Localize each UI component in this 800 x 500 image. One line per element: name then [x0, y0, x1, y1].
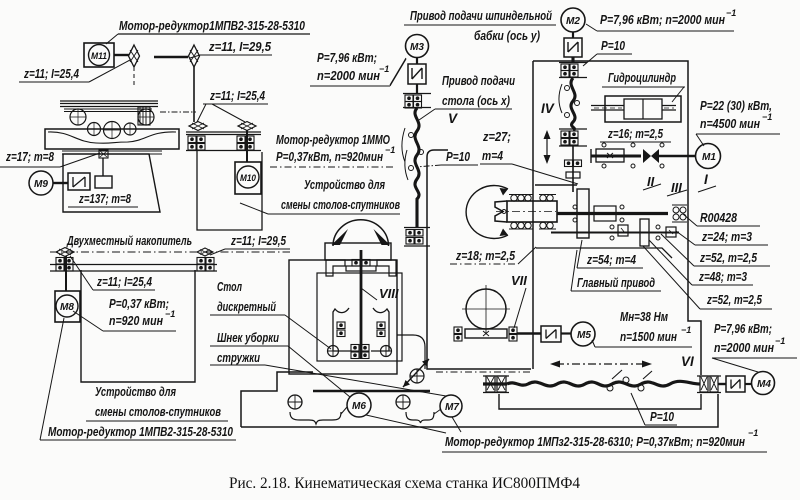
wire M3 to coupling [416, 57, 418, 64]
table spindle shaft [360, 250, 363, 359]
shaft I left end cap [590, 149, 592, 163]
svg-text:М3: М3 [410, 42, 424, 53]
drive circle left [328, 346, 339, 357]
C-bracket left [333, 308, 351, 351]
svg-text:z=11, I=29,5: z=11, I=29,5 [208, 39, 272, 54]
svg-text:P=0,37кВт, n=920мин: P=0,37кВт, n=920мин [276, 149, 383, 164]
label z=11 I=25,4 (M8) [70, 256, 155, 290]
svg-text:−1: −1 [748, 428, 758, 438]
svg-text:М11: М11 [91, 51, 107, 62]
gear wheel B [138, 109, 154, 125]
svg-text:n=2000 мин: n=2000 мин [317, 68, 380, 83]
svg-text:z=24; m=3: z=24; m=3 [701, 229, 752, 244]
C-bracket right [371, 308, 389, 351]
svg-text:−1: −1 [726, 8, 736, 18]
spindle shaft III [557, 212, 668, 215]
gear sleeve on shaft I [596, 149, 624, 162]
accumulator rail [50, 265, 217, 272]
exchange device box (left) [81, 270, 195, 382]
svg-text:Мотор-редуктор 1МПз2-315-28-63: Мотор-редуктор 1МПз2-315-28-6310; P=0,37… [445, 434, 745, 449]
svg-text:z=18; m=2,5: z=18; m=2,5 [455, 248, 515, 263]
bevel wheel (rail right end) [197, 248, 213, 256]
drive circle right [381, 346, 392, 357]
lower shaft [551, 232, 679, 234]
screw VI left bearing [483, 376, 509, 393]
motor M7 [440, 395, 462, 417]
svg-text:z=48; m=3: z=48; m=3 [698, 269, 747, 284]
label z=16 m=2,5 [600, 126, 671, 142]
label Мотор-редуктор 1МПВ2-315-28-5310 (bottom-left) [40, 424, 236, 440]
svg-text:n=2000 мин: n=2000 мин [714, 340, 774, 355]
leader to смены label [240, 203, 268, 214]
svg-text:I: I [704, 172, 708, 187]
screw IV bottom bearing [559, 129, 587, 146]
svg-text:смены столов-спутников: смены столов-спутников [281, 197, 400, 212]
svg-text:P=7,96 кВт;: P=7,96 кВт; [714, 321, 772, 336]
bearing cluster right [672, 205, 687, 222]
gearbox left edge [532, 61, 534, 369]
svg-text:z=11; I=25,4: z=11; I=25,4 [23, 66, 79, 81]
svg-text:−1: −1 [385, 145, 395, 155]
svg-text:n=920 мин: n=920 мин [109, 313, 163, 328]
bearing dots shaft I [602, 143, 664, 168]
svg-text:дискретный: дискретный [217, 299, 276, 314]
rotation arc arrow [466, 186, 508, 239]
machine bed bottom [241, 394, 718, 427]
wire shaft M11 to gear [114, 54, 129, 56]
motor M9 [29, 171, 53, 195]
svg-text:IV: IV [541, 101, 555, 116]
svg-text:Двухместный накопитель: Двухместный накопитель [66, 233, 192, 248]
spindle body [495, 201, 557, 222]
motor M8 [55, 291, 80, 322]
label III [667, 180, 687, 196]
label z=17 m=8 [0, 149, 100, 167]
svg-text:R00428: R00428 [700, 210, 738, 225]
svg-text:Гидроцилиндр: Гидроцилиндр [608, 70, 676, 85]
label Мотор-редуктор 1МПз2-315-28-6310 [442, 428, 767, 452]
transfer dash-dot line (upper) [160, 111, 196, 113]
label n=4500 мин [696, 112, 780, 146]
pinion (hatched) [138, 107, 150, 125]
svg-text:М2: М2 [566, 16, 580, 27]
station box outline [197, 151, 262, 230]
safety coupling M3 [408, 64, 426, 84]
label Привод подачи шпиндельной бабки (ось y) [404, 8, 556, 43]
svg-text:Мотор-редуктор 1МПВ2-315-28-53: Мотор-редуктор 1МПВ2-315-28-5310 [48, 424, 234, 439]
label Главный привод [571, 250, 661, 291]
leader M8 to bottom motor label [40, 318, 64, 440]
table outer box [289, 260, 397, 374]
pallet station: top rail plate [60, 101, 158, 112]
safety coupling M2 [564, 38, 582, 57]
svg-text:Устройство для: Устройство для [95, 384, 176, 399]
svg-text:Главный привод: Главный привод [577, 275, 655, 290]
svg-text:М4: М4 [757, 379, 771, 390]
label смены столов-спутников (right) [268, 197, 400, 214]
svg-text:VII: VII [511, 273, 527, 288]
svg-text:P=10: P=10 [650, 409, 675, 424]
motor M3 [390, 35, 429, 86]
table inner box [317, 273, 402, 361]
worm mark box [99, 150, 108, 158]
wire coupling to M5 [561, 332, 571, 334]
label P=7,96 кВт n=2000 мин (M2) [586, 8, 736, 31]
gear hub on shaft III [594, 206, 616, 221]
station rail [186, 132, 261, 151]
tall gear on lower shaft [640, 219, 649, 246]
feed arrow vertical [544, 130, 551, 164]
gear wheel C [88, 123, 101, 136]
svg-text:z=11; I=25,4: z=11; I=25,4 [96, 274, 152, 289]
machine body block [45, 129, 179, 149]
svg-text:М1: М1 [702, 152, 716, 163]
body lower rail [62, 151, 162, 154]
claw bracket right [377, 260, 396, 276]
center bearing stack [351, 345, 369, 359]
svg-text:z=52, m=2,5: z=52, m=2,5 [699, 250, 757, 265]
svg-text:смены столов-спутников: смены столов-спутников [95, 404, 221, 419]
screw V bottom bearing [404, 228, 430, 247]
svg-text:Стол: Стол [217, 279, 242, 294]
svg-text:Привод подачи шпиндельной: Привод подачи шпиндельной [410, 8, 552, 23]
bearing block (right end) [197, 258, 214, 272]
top bearing pair [352, 260, 370, 267]
brace left conveyor [290, 407, 347, 424]
svg-text:Привод подачи: Привод подачи [442, 73, 515, 88]
svg-text:М10: М10 [240, 173, 257, 184]
label II [643, 174, 661, 190]
svg-text:Устройство для: Устройство для [304, 177, 385, 192]
main gearbox outline [533, 61, 701, 375]
bed step outline [241, 372, 313, 427]
label n=920 мин [73, 309, 176, 331]
svg-text:n=1500 мин: n=1500 мин [620, 329, 677, 344]
svg-text:n=4500 мин: n=4500 мин [700, 116, 760, 131]
svg-text:P=22 (30) кВт,: P=22 (30) кВт, [700, 98, 772, 113]
gearbox bottom edge [536, 248, 672, 258]
label z=48 m=3 [649, 240, 753, 285]
spindle bearings top [509, 195, 556, 202]
wire M2 to coupling [572, 32, 574, 38]
coupling И (M5) [541, 326, 561, 342]
wire M9 shaft [53, 182, 68, 184]
label P=10 (screw IV) [583, 38, 632, 66]
svg-text:М5: М5 [577, 330, 591, 341]
svg-text:z=52, m=2,5: z=52, m=2,5 [706, 292, 762, 307]
label VIII [361, 286, 399, 301]
worm box [465, 329, 507, 338]
hydrocylinder [591, 96, 681, 122]
bearing block right [237, 136, 254, 150]
label Стол дискретный [210, 279, 331, 349]
label z=11 I=29,5 (accumulator rail) [210, 233, 290, 255]
gear wheel E [124, 123, 136, 135]
label z=52 m=2,5 (second) [643, 246, 772, 309]
svg-text:Мотор-редуктор 1ММО: Мотор-редуктор 1ММО [276, 132, 390, 147]
svg-text:−1: −1 [681, 325, 691, 335]
wire right gear down to station rail [193, 67, 195, 122]
wire dashed below gear [133, 67, 135, 88]
svg-text:V: V [448, 111, 458, 126]
label Привод подачи стола (ось x) [419, 73, 515, 120]
label R00428 [683, 210, 760, 226]
shaft I [591, 155, 641, 158]
svg-text:z=16; m=2,5: z=16; m=2,5 [607, 126, 663, 141]
svg-text:P=0,37 кВт;: P=0,37 кВт; [109, 296, 169, 311]
wire worm box down [102, 158, 104, 176]
motor M1 [696, 144, 721, 169]
gear wheel A [70, 109, 86, 125]
wire worm to coupling [517, 332, 541, 335]
wire gear to M10 [246, 130, 248, 162]
label Мотор-редуктор 1МПВ2-315-28-5310 (top) [106, 18, 310, 44]
label Гидроцилиндр [602, 70, 685, 102]
label z=18 m=2,5 [450, 247, 536, 264]
lower block (trapezoid) [63, 154, 160, 212]
bearing block left [188, 136, 205, 150]
spindle bearings bottom [509, 222, 556, 229]
leader bottom label to M6 [366, 415, 446, 433]
label z=11 I=25,4 (M11) [19, 60, 130, 82]
globoid worm gear symbol (right) [189, 45, 200, 67]
svg-text:Шнек уборки: Шнек уборки [217, 330, 279, 345]
svg-text:бабки (ось у): бабки (ось у) [474, 28, 540, 43]
svg-text:z=27;: z=27; [482, 129, 511, 144]
globoid worm gear symbol (left) [129, 45, 140, 67]
label VII [511, 273, 527, 328]
svg-text:P=7,96 кВт;: P=7,96 кВт; [317, 50, 377, 65]
svg-text:−1: −1 [379, 64, 389, 74]
label I [698, 172, 716, 192]
svg-text:М6: М6 [352, 401, 366, 412]
pump circle middle [396, 395, 410, 409]
tall gear z=54 [577, 189, 589, 238]
label P=7,96 кВт n=2000 мин (M3) [310, 50, 406, 86]
svg-text:−1: −1 [762, 112, 772, 122]
label z=54 m=4 [577, 240, 643, 268]
svg-text:P=7,96 кВт; n=2000 мин: P=7,96 кВт; n=2000 мин [600, 12, 725, 27]
ball screw VI [483, 370, 700, 391]
screw VI right bearing [697, 376, 721, 393]
gear box small [95, 176, 112, 188]
motor M10 [235, 162, 261, 194]
wire coupling to bearing [416, 84, 418, 93]
bevel wheel (M8) [56, 248, 74, 257]
ball screw IV [559, 57, 580, 130]
svg-text:Рис. 2.18. Кинематическая схем: Рис. 2.18. Кинематическая схема станка И… [229, 475, 580, 492]
svg-text:VI: VI [681, 354, 694, 369]
label z=24 m=3 [676, 229, 768, 245]
overload clutch (bevel pair) [643, 149, 659, 163]
svg-text:z=11; I=25,4: z=11; I=25,4 [209, 88, 265, 103]
top plate [346, 266, 376, 271]
label P=0,37кВт n=920мин [270, 145, 395, 167]
svg-text:P=10: P=10 [446, 149, 471, 164]
svg-text:стружки: стружки [217, 350, 260, 365]
label смены столов-спутников (left) [86, 404, 228, 421]
wire M8 shaft [65, 256, 67, 291]
wire coupling to M4 [745, 383, 752, 385]
svg-text:−1: −1 [165, 309, 175, 319]
base thick line under table [313, 390, 430, 393]
label стружки [210, 350, 446, 396]
vertical shaft from screw IV [572, 146, 574, 192]
svg-text:стола (ось х): стола (ось х) [442, 93, 510, 108]
pump circle left [288, 395, 302, 409]
coupling И (M9) [68, 173, 90, 190]
clutch box B [666, 227, 676, 237]
leader bottom label to M7 [452, 417, 461, 432]
svg-text:z=54; m=4: z=54; m=4 [586, 252, 636, 267]
dash-dot line right of table [436, 371, 530, 373]
motor M11 [84, 43, 114, 67]
wire table box to spindle head [397, 335, 425, 369]
motor M4 [752, 372, 775, 395]
motor M6 [347, 393, 371, 417]
svg-text:Мн=38 Нм: Мн=38 Нм [620, 309, 668, 324]
bearing ticks lower shaft [610, 225, 660, 240]
svg-text:P=10: P=10 [601, 38, 626, 53]
label m=4 [480, 148, 578, 184]
svg-text:Мотор-редуктор1МПВ2-315-28-531: Мотор-редуктор1МПВ2-315-28-5310 [119, 18, 306, 33]
clutch box A [618, 225, 628, 236]
spindle head box VII [427, 150, 531, 369]
svg-text:М7: М7 [445, 402, 459, 413]
svg-text:М9: М9 [34, 179, 48, 190]
svg-text:z=17; m=8: z=17; m=8 [5, 149, 54, 164]
screw VI housing [499, 394, 701, 409]
gear wheel D [104, 122, 121, 139]
svg-text:−1: −1 [775, 336, 785, 346]
gear on vertical shaft [565, 160, 582, 178]
label z=137 m=8 [68, 191, 138, 207]
slide pump circle with arrow [403, 359, 429, 387]
worm bearings [454, 327, 517, 341]
svg-text:m=4: m=4 [482, 148, 504, 163]
svg-text:М8: М8 [60, 302, 74, 313]
coupling И (M4) [726, 376, 745, 392]
transfer dash-dot line (M8 level) [50, 251, 290, 253]
rotary table dome [332, 220, 391, 246]
bearing block (M8 end) [56, 258, 73, 272]
svg-text:VIII: VIII [379, 286, 399, 301]
shaft II stub [535, 184, 577, 186]
brace right conveyor [406, 409, 441, 423]
label n=1500 мин [592, 325, 692, 347]
label P=10 (screw VI) [631, 393, 677, 425]
svg-text:z=137; m=8: z=137; m=8 [78, 191, 131, 206]
wire clutch to M1 [659, 155, 696, 158]
bevel wheel right (M10 rail) [238, 122, 256, 131]
motor M5 [571, 322, 595, 346]
svg-text:z=11; I=29,5: z=11; I=29,5 [230, 233, 286, 248]
label Шнек уборки [210, 330, 350, 397]
label z=11 I=25,4 (M10 station) [197, 88, 268, 122]
thrust bearing unit (screw V top) [403, 94, 431, 109]
wire shaft into right gear [154, 56, 188, 58]
wire screw to coupling [718, 383, 726, 385]
table housing [325, 243, 391, 260]
bevel wheel left (M10 rail) [189, 122, 207, 131]
feed arrow horizontal (table X) [550, 361, 652, 368]
claw bracket left [326, 260, 345, 276]
worm wheel VII [462, 285, 510, 333]
ball screw V [402, 108, 424, 228]
label z=11 I=29,5 [190, 39, 272, 58]
thrust bearing unit (screw IV top) [559, 63, 587, 78]
label P=10 (screw V) [416, 149, 478, 167]
label z=52 m=2,5 (first) [661, 234, 770, 266]
bearing ticks shaft III [573, 205, 624, 222]
label n=2000 мин (M4) [712, 336, 797, 372]
motor M2 [561, 8, 585, 32]
